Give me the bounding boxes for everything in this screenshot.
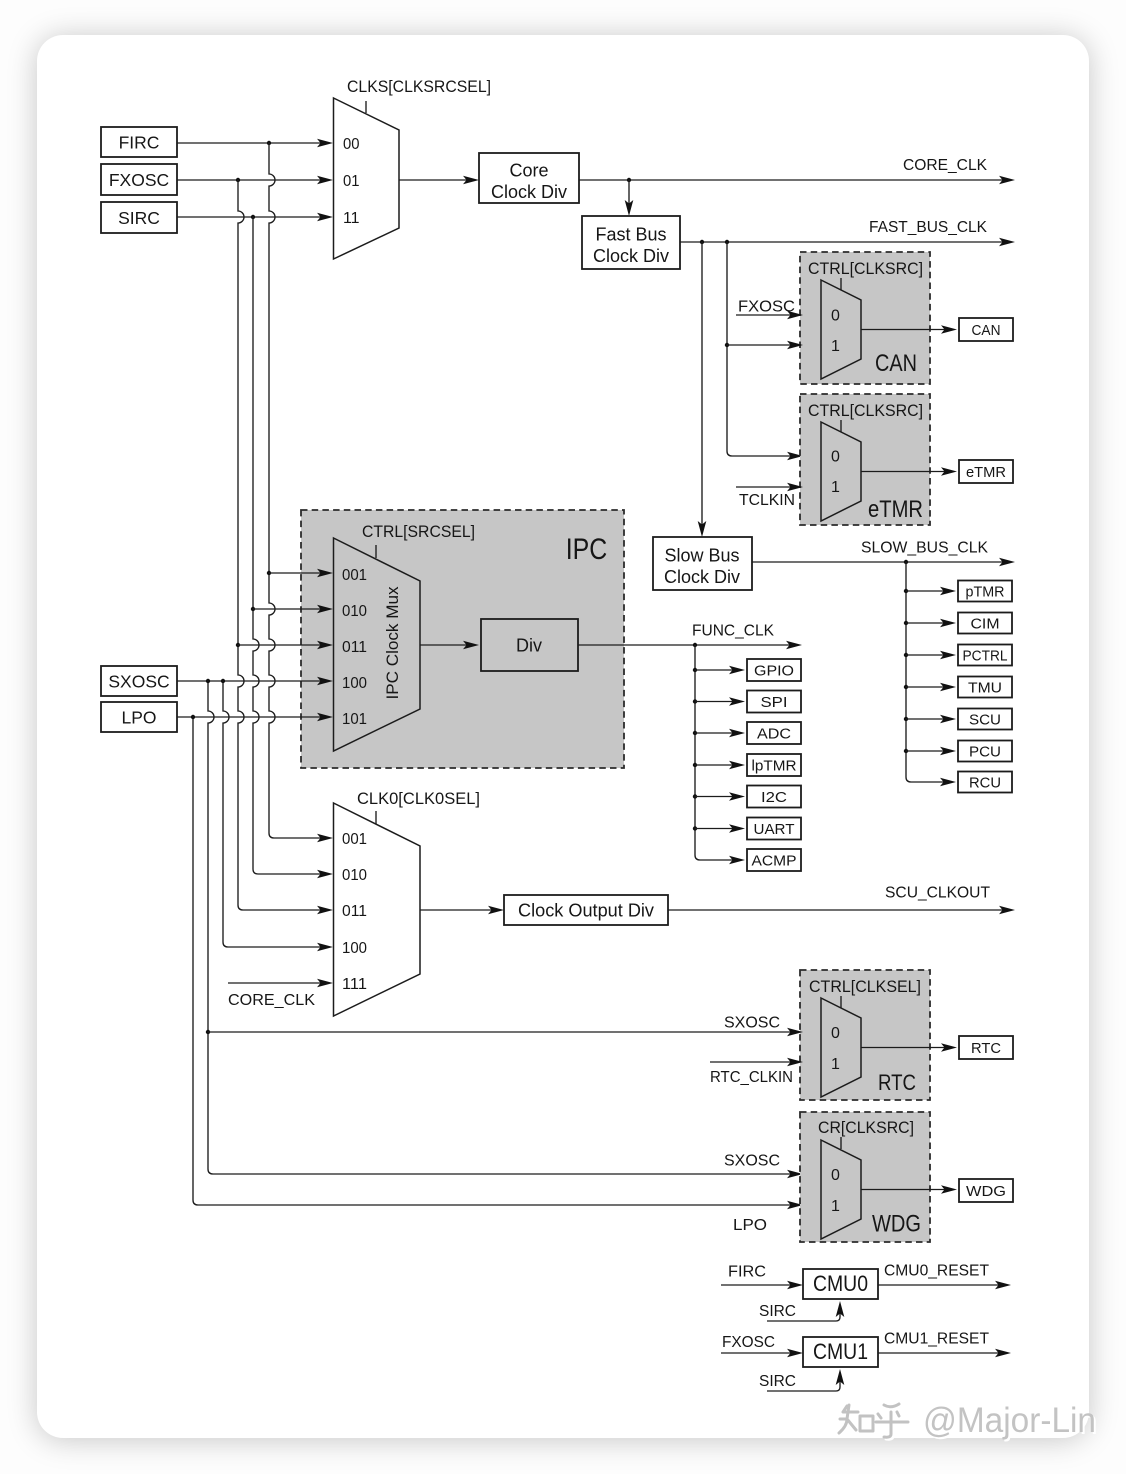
wire SXOSC to RTC mux 0: [208, 1028, 803, 1037]
net label FAST_BUS_CLK: [869, 219, 987, 236]
net label SXOSC (WDG input): [724, 1153, 780, 1170]
svg-text:Clock Div: Clock Div: [491, 182, 567, 202]
svg-text:FAST_BUS_CLK: FAST_BUS_CLK: [869, 219, 987, 236]
wire FXOSC to CLKS mux input 01: [177, 176, 333, 185]
svg-text:Clock Output Div: Clock Output Div: [518, 901, 654, 921]
input stub RTC_CLKIN to RTC mux 1: [710, 1058, 803, 1086]
net label SLOW_BUS_CLK: [861, 540, 988, 557]
svg-text:1: 1: [831, 338, 840, 355]
mux CAN tick: [840, 278, 842, 290]
svg-text:1: 1: [831, 479, 840, 496]
svg-text:SLOW_BUS_CLK: SLOW_BUS_CLK: [861, 540, 988, 557]
svg-text:Fast Bus: Fast Bus: [595, 225, 666, 245]
svg-text:RTC: RTC: [971, 1040, 1001, 1057]
output box CIM: [958, 613, 1012, 634]
wire CMU1_RESET output: [878, 1349, 1011, 1358]
input stub TCLKIN to eTMR mux 1: [736, 483, 803, 509]
output box PCU: [958, 741, 1012, 762]
wire SLOW_BUS_CLK output: [752, 558, 1015, 567]
wire SCU_CLKOUT output: [668, 906, 1015, 915]
svg-text:0: 0: [831, 1025, 840, 1042]
svg-text:WDG: WDG: [966, 1183, 1006, 1200]
wire branch to GPIO: [695, 666, 745, 675]
output box ADC: [747, 722, 801, 744]
svg-text:CTRL[SRCSEL]: CTRL[SRCSEL]: [362, 523, 475, 541]
label CTRL[CLKSEL] (RTC): [809, 978, 921, 996]
output box RCU: [958, 772, 1012, 793]
wire branch to lpTMR: [695, 761, 745, 770]
mux RTC trapezoid: [821, 998, 861, 1097]
svg-text:TMU: TMU: [968, 680, 1002, 697]
mux CLK0 tick: [375, 811, 377, 824]
mux RTC tick: [840, 996, 842, 1008]
svg-text:CMU0_RESET: CMU0_RESET: [884, 1263, 989, 1280]
wire branch to ADC: [695, 729, 745, 738]
wire SXOSC to IPC mux 100: [177, 677, 333, 686]
svg-text:SPI: SPI: [761, 694, 788, 711]
vertical bus wire FIRC (x=269) with hops, to CLK0 input 001: [267, 143, 333, 842]
wire branch to CIM: [906, 619, 956, 628]
input stub FXOSC to CAN mux 0: [736, 299, 803, 320]
net label SCU_CLKOUT: [885, 885, 990, 902]
svg-text:CAN: CAN: [972, 322, 1001, 339]
vertical bus wire SXOSC branch 1 (x=208), to RTC and WDG input 0: [206, 681, 803, 1178]
output box UART: [747, 818, 801, 840]
svg-text:pTMR: pTMR: [966, 584, 1005, 601]
svg-text:FXOSC: FXOSC: [109, 170, 169, 190]
net label SXOSC (RTC input): [724, 1015, 780, 1032]
net label CORE_CLK: [903, 157, 987, 174]
label CR[CLKSRC] (WDG): [818, 1119, 914, 1137]
svg-text:SXOSC: SXOSC: [724, 1153, 780, 1170]
wire SIRC to CLKS mux input 11: [177, 213, 333, 222]
wire fast bus down to Slow Bus Clock Div (x=702): [698, 242, 707, 537]
svg-text:01: 01: [343, 173, 360, 190]
net label CMU0_RESET: [884, 1263, 989, 1280]
svg-text:0: 0: [831, 1167, 840, 1184]
wire CORE_CLK output: [579, 176, 1015, 185]
mux select label CLK0[CLK0SEL]: [357, 789, 480, 808]
vertical bus wire SXOSC branch 2 (x=223), to CLK0 input 100: [223, 681, 333, 951]
block Core Clock Div: [479, 153, 579, 203]
wire SIRC bus to IPC mux 010: [253, 605, 333, 614]
svg-text:FXOSC: FXOSC: [738, 299, 795, 316]
wire FIRC bus to IPC mux 001: [269, 569, 333, 578]
block Fast Bus Clock Div: [582, 216, 680, 269]
mux eTMR tick: [840, 420, 842, 432]
output box pTMR: [958, 581, 1012, 602]
wire CLK0 mux output to Clock Output Div: [420, 906, 504, 915]
wire IPC mux output to Div: [420, 641, 479, 650]
svg-text:FIRC: FIRC: [728, 1264, 766, 1281]
svg-text:011: 011: [342, 903, 367, 920]
svg-text:CMU0: CMU0: [813, 1271, 868, 1296]
svg-text:100: 100: [342, 675, 367, 692]
vertical bus wire LPO (x=193), to WDG input 1: [193, 717, 803, 1209]
label CTRL[CLKSRC] (CAN): [808, 260, 923, 278]
svg-text:CLK0[CLK0SEL]: CLK0[CLK0SEL]: [357, 789, 480, 808]
wire fast bus to CAN mux 1: [727, 341, 803, 350]
output box lpTMR: [747, 754, 801, 776]
svg-text:RTC_CLKIN: RTC_CLKIN: [710, 1069, 793, 1086]
vertical bus wire SIRC (x=253) with hops, to CLK0 input 010: [251, 217, 333, 878]
wire LPO to IPC mux 101: [177, 713, 333, 722]
svg-text:TCLKIN: TCLKIN: [739, 492, 795, 509]
input stub FXOSC to CMU1: [721, 1334, 803, 1357]
mux IPC tick: [375, 545, 377, 558]
svg-text:CTRL[CLKSRC]: CTRL[CLKSRC]: [808, 260, 923, 278]
svg-text:111: 111: [342, 976, 367, 993]
source box SIRC: [101, 202, 177, 233]
label CTRL[SRCSEL]: [362, 523, 475, 541]
mux select label CLKS[CLKSRCSEL]: [347, 77, 491, 96]
svg-text:0: 0: [831, 308, 840, 325]
wire CLKS mux output to Core Clock Div: [399, 176, 479, 185]
svg-text:CR[CLKSRC]: CR[CLKSRC]: [818, 1119, 914, 1137]
wire fast bus down to CAN input 1 and eTMR input 0 (x=727): [725, 242, 803, 460]
block Slow Bus Clock Div: [653, 537, 752, 590]
mux IPC Clock Mux trapezoid: [334, 538, 421, 751]
output box RTC: [959, 1036, 1013, 1059]
svg-text:11: 11: [343, 210, 360, 227]
svg-text:1: 1: [831, 1198, 840, 1215]
net label LPO (WDG input): [733, 1217, 767, 1234]
svg-text:Clock Div: Clock Div: [664, 567, 740, 587]
svg-text:SIRC: SIRC: [118, 208, 160, 228]
block Clock Output Div: [504, 895, 668, 925]
svg-text:SIRC: SIRC: [759, 1373, 796, 1390]
output box SPI: [747, 691, 801, 713]
mux WDG trapezoid: [821, 1140, 861, 1239]
svg-text:SCU: SCU: [969, 712, 1001, 729]
svg-text:CORE_CLK: CORE_CLK: [228, 992, 315, 1009]
svg-text:CMU1_RESET: CMU1_RESET: [884, 1331, 989, 1348]
output box TMU: [958, 677, 1012, 698]
big label WDG: [872, 1211, 921, 1238]
wire branch to pTMR: [906, 587, 956, 596]
svg-text:LPO: LPO: [121, 707, 156, 727]
svg-text:eTMR: eTMR: [966, 464, 1006, 481]
svg-text:100: 100: [342, 940, 367, 957]
block Div: [481, 619, 578, 671]
wire junction down to Fast Bus Clock Div: [625, 180, 634, 216]
output box GPIO: [747, 659, 801, 681]
block CMU0: [803, 1269, 878, 1299]
svg-text:PCTRL: PCTRL: [963, 648, 1008, 665]
wire slow bus branch vertical: [904, 562, 956, 786]
mux CLKS[CLKSRCSEL] trapezoid: [334, 98, 400, 259]
svg-text:SIRC: SIRC: [759, 1303, 796, 1320]
svg-text:WDG: WDG: [872, 1211, 921, 1238]
peripheral mux block WDG (gray): [800, 1112, 930, 1242]
svg-text:FIRC: FIRC: [119, 132, 160, 152]
wire CAN mux output: [861, 325, 957, 334]
wire RTC mux output: [861, 1043, 957, 1052]
mux WDG tick: [840, 1137, 842, 1149]
wire branch to UART: [695, 824, 745, 833]
svg-text:SXOSC: SXOSC: [108, 671, 169, 691]
svg-text:GPIO: GPIO: [754, 663, 794, 680]
output box CAN: [959, 318, 1013, 341]
svg-text:I2C: I2C: [761, 789, 787, 806]
source box FXOSC: [101, 164, 177, 195]
output box PCTRL: [958, 645, 1012, 666]
source box FIRC: [101, 127, 177, 157]
big label CAN: [875, 350, 917, 377]
svg-text:ACMP: ACMP: [752, 853, 797, 870]
peripheral mux block eTMR (gray): [800, 394, 930, 525]
net label CMU1_RESET: [884, 1331, 989, 1348]
svg-text:IPC Clock Mux: IPC Clock Mux: [383, 586, 402, 699]
wire branch to PCTRL: [906, 651, 956, 660]
input stub FIRC to CMU0: [721, 1264, 803, 1290]
big label RTC: [878, 1070, 916, 1095]
svg-text:@Major-Lin: @Major-Lin: [923, 1401, 1096, 1440]
svg-text:1: 1: [831, 1056, 840, 1073]
svg-text:00: 00: [343, 136, 360, 153]
svg-text:001: 001: [342, 831, 367, 848]
watermark zhihu glyphs: [839, 1404, 910, 1439]
output box SCU: [958, 709, 1012, 730]
mux CLK0[CLK0SEL] trapezoid: [334, 803, 421, 1016]
svg-text:CTRL[CLKSEL]: CTRL[CLKSEL]: [809, 978, 921, 996]
input stub SIRC to CMU0 (elbow): [759, 1301, 844, 1321]
svg-text:LPO: LPO: [733, 1217, 767, 1234]
mux eTMR trapezoid: [821, 422, 861, 521]
svg-text:CIM: CIM: [971, 616, 1000, 633]
big label eTMR: [868, 496, 923, 523]
wire branch to SCU: [906, 715, 956, 724]
input stub SIRC to CMU1 (elbow): [759, 1369, 844, 1391]
output box I2C: [747, 786, 801, 808]
svg-text:RCU: RCU: [969, 775, 1001, 792]
label CTRL[CLKSRC] (eTMR): [808, 402, 923, 420]
wire FXOSC bus to IPC mux 011: [238, 641, 333, 650]
source box SXOSC: [101, 666, 177, 696]
block IPC (gray): [301, 510, 624, 768]
svg-text:Clock Div: Clock Div: [593, 246, 669, 266]
input stub CORE_CLK to CLK0 mux 111: [228, 979, 333, 1009]
wire WDG mux output: [861, 1185, 957, 1194]
big label IPC: [566, 533, 608, 566]
wire FIRC to CLKS mux input 00: [177, 139, 333, 148]
wire branch to I2C: [695, 792, 745, 801]
svg-text:IPC: IPC: [566, 533, 608, 566]
wire CMU0_RESET output: [878, 1281, 1011, 1290]
svg-text:010: 010: [342, 603, 367, 620]
output box ACMP: [747, 849, 801, 871]
wire func clk branch vertical: [693, 645, 745, 864]
svg-text:001: 001: [342, 567, 367, 584]
output box WDG: [959, 1179, 1013, 1202]
vertical bus wire FXOSC (x=238) with hops, to CLK0 input 011: [236, 180, 333, 914]
wire branch to TMU: [906, 683, 956, 692]
wire FUNC_CLK output: [578, 641, 802, 650]
wire FAST_BUS_CLK output: [680, 238, 1015, 247]
svg-text:CMU1: CMU1: [813, 1339, 868, 1364]
svg-text:CORE_CLK: CORE_CLK: [903, 157, 987, 174]
svg-text:CAN: CAN: [875, 350, 917, 377]
svg-text:SCU_CLKOUT: SCU_CLKOUT: [885, 885, 990, 902]
svg-text:lpTMR: lpTMR: [752, 758, 797, 775]
svg-text:SXOSC: SXOSC: [724, 1015, 780, 1032]
source box LPO: [101, 702, 177, 732]
svg-text:CTRL[CLKSRC]: CTRL[CLKSRC]: [808, 402, 923, 420]
output box eTMR: [959, 460, 1013, 483]
svg-text:UART: UART: [754, 821, 795, 838]
svg-text:eTMR: eTMR: [868, 496, 923, 523]
wire branch to SPI: [695, 697, 745, 706]
peripheral mux block RTC (gray): [800, 970, 930, 1100]
wire eTMR mux output: [861, 467, 957, 476]
peripheral mux block CAN (gray): [800, 252, 930, 384]
mux CLKS tick: [365, 101, 367, 113]
svg-text:Core: Core: [509, 161, 548, 181]
net label FUNC_CLK: [692, 623, 774, 640]
block CMU1: [803, 1337, 878, 1367]
svg-text:FXOSC: FXOSC: [722, 1334, 775, 1351]
svg-text:010: 010: [342, 867, 367, 884]
mux CAN trapezoid: [821, 280, 861, 379]
wire branch to PCU: [906, 747, 956, 756]
svg-text:PCU: PCU: [969, 744, 1001, 761]
svg-text:FUNC_CLK: FUNC_CLK: [692, 623, 774, 640]
svg-text:Div: Div: [516, 636, 542, 656]
svg-text:011: 011: [342, 639, 367, 656]
svg-text:Slow Bus: Slow Bus: [664, 546, 739, 566]
svg-text:0: 0: [831, 449, 840, 466]
svg-text:RTC: RTC: [878, 1070, 916, 1095]
svg-text:CLKS[CLKSRCSEL]: CLKS[CLKSRCSEL]: [347, 77, 491, 96]
svg-text:101: 101: [342, 711, 367, 728]
svg-text:ADC: ADC: [757, 726, 791, 743]
